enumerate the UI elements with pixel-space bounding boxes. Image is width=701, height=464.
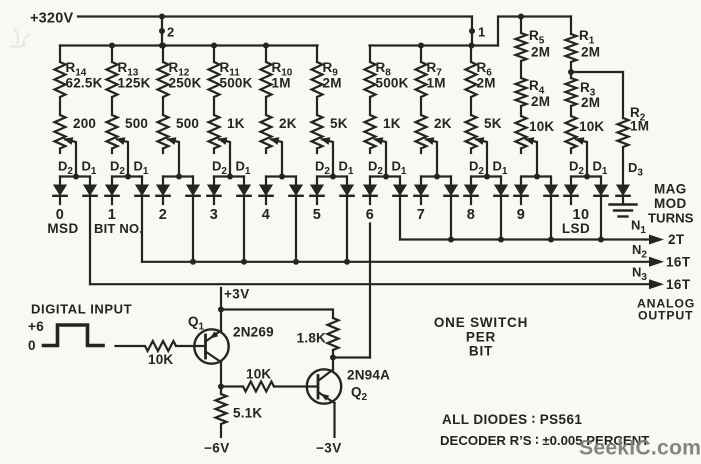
svg-text:N2: N2	[632, 242, 647, 261]
wire Q2 collector node to bit 6 line	[333, 356, 370, 358]
svg-text:125K: 125K	[118, 76, 151, 91]
digital input pulse waveform	[44, 325, 104, 346]
bus N1 to 2T arrow	[400, 238, 656, 240]
wire +320V rail	[78, 15, 472, 17]
potentiometer bit 1 wiper arrow	[117, 139, 128, 176]
junction bus N1 x=601	[598, 237, 604, 243]
junction diode pair bit 7	[434, 174, 440, 180]
diode D1 bit 4	[295, 177, 297, 186]
svg-text:2K: 2K	[279, 116, 297, 131]
wire +3V node to 1.8K	[221, 310, 333, 319]
wire 10K to Q1 base	[176, 345, 206, 347]
svg-text:0: 0	[28, 338, 36, 353]
junction diode pair bit 0	[73, 174, 79, 180]
wire Q2 collector	[332, 358, 334, 370]
transistor Q2 2N94A	[307, 369, 341, 403]
svg-text:N1: N1	[631, 218, 646, 237]
bus A top of bits 0-5	[60, 44, 318, 46]
svg-text:2M: 2M	[477, 76, 496, 91]
wire Q1 bottom to emitter node	[220, 362, 222, 387]
junction +3V node	[218, 307, 224, 313]
svg-text:500: 500	[176, 116, 199, 131]
svg-text:8: 8	[467, 207, 475, 223]
wire D1 drop to bus N1 x=601	[600, 196, 602, 240]
svg-text:1M: 1M	[427, 76, 446, 91]
potentiometer bit 4 wiper arrow	[271, 139, 282, 176]
resistor R7 1M bit 7	[420, 46, 422, 63]
svg-text:1M: 1M	[272, 76, 291, 91]
svg-text:OUTPUT: OUTPUT	[638, 309, 693, 323]
junction rail bit 9 drop	[518, 14, 524, 20]
svg-text:−3V: −3V	[316, 441, 342, 456]
resistor 1.8K	[328, 318, 339, 350]
resistor R3 2M bit 10	[566, 78, 577, 106]
svg-text:2T: 2T	[668, 232, 685, 247]
junction bus N1 x=501	[498, 237, 504, 243]
diode D2 bit 4	[265, 177, 267, 186]
svg-text:PER: PER	[466, 330, 496, 345]
resistor R6 2M bit 8	[470, 46, 472, 63]
node 2	[159, 28, 165, 34]
svg-text:D1: D1	[392, 159, 407, 178]
svg-text:10K: 10K	[246, 367, 271, 382]
junction diode pair bit 5	[330, 174, 336, 180]
wire D1 drop to bus N1 x=501	[500, 196, 502, 240]
diode D2 bit 3	[213, 177, 215, 186]
svg-text:1M: 1M	[630, 119, 649, 134]
wire Q1 base input	[116, 345, 146, 347]
svg-text:D2: D2	[469, 159, 484, 178]
wire D1 drop to bus N2 x=347	[346, 196, 348, 262]
svg-text:D2: D2	[368, 159, 383, 178]
svg-text:2M: 2M	[531, 45, 550, 60]
wire bit 0 D1 to bus N3	[89, 196, 91, 284]
svg-text:10K: 10K	[579, 119, 604, 134]
svg-text:2: 2	[167, 25, 175, 40]
node 2 feed wire	[161, 17, 163, 46]
svg-text:2M: 2M	[323, 76, 342, 91]
svg-text:1K: 1K	[227, 116, 245, 131]
svg-text:MAG: MAG	[654, 182, 687, 197]
svg-text:BIT: BIT	[469, 344, 493, 359]
wire D1 drop to bus N2 x=244	[243, 196, 245, 262]
diode D2 bit 8	[470, 177, 472, 186]
svg-text:2M: 2M	[531, 94, 550, 109]
diode D2 bit 0	[59, 177, 61, 186]
wire +320V rail right segment	[498, 17, 571, 46]
junction diode pair bit 1	[125, 174, 131, 180]
junction bus A x=112	[109, 43, 115, 49]
junction diode pair bit 4	[279, 174, 285, 180]
potentiometer bit 7 wiper arrow	[426, 139, 437, 176]
junction Q1 emitter node	[218, 384, 224, 390]
junction diode pair bit 8	[484, 174, 490, 180]
wire node to 10K coupling	[221, 385, 243, 387]
svg-text:N3: N3	[632, 265, 647, 284]
resistor R11 500K bit 3	[213, 46, 215, 63]
junction bus A x=266	[263, 43, 269, 49]
svg-text:DIGITAL INPUT: DIGITAL INPUT	[31, 302, 132, 317]
svg-text:62.5K: 62.5K	[66, 76, 103, 91]
potentiometer bit 2 wiper arrow	[168, 139, 179, 176]
svg-text:−6V: −6V	[204, 441, 230, 456]
resistor R12 250K bit 2	[162, 46, 164, 63]
svg-text:D2: D2	[110, 159, 125, 178]
bus N3 to 16T arrow	[90, 283, 656, 285]
wire rail corner into node 1	[471, 17, 473, 46]
svg-text:3: 3	[210, 207, 218, 223]
resistor R9 2M bit 5	[316, 46, 318, 63]
svg-text:2N269: 2N269	[233, 325, 274, 340]
svg-text:ONE SWITCH: ONE SWITCH	[434, 315, 528, 330]
potentiometer bit 6 body	[369, 97, 371, 115]
svg-text:2: 2	[159, 207, 167, 223]
svg-text:200: 200	[73, 116, 96, 131]
svg-text:D1: D1	[82, 159, 97, 178]
wire D1 drop to bus N2 x=193	[192, 196, 194, 262]
junction +320V rail / node 2	[159, 14, 165, 20]
svg-text:250K: 250K	[169, 76, 202, 91]
resistor R5 2M bit 9	[520, 17, 522, 34]
junction bus B bit 7	[418, 43, 424, 49]
svg-text:D2: D2	[569, 159, 584, 178]
junction diode pair bit 10	[584, 174, 590, 180]
svg-text:TURNS: TURNS	[648, 211, 694, 226]
svg-text:MSD: MSD	[47, 221, 78, 236]
junction Q2 collector node	[330, 355, 336, 361]
diode D1 bit 9	[550, 177, 552, 186]
svg-text:D1: D1	[593, 159, 608, 178]
svg-text:+320V: +320V	[30, 11, 73, 27]
junction R1/R3/R2	[568, 69, 574, 75]
svg-text:10K: 10K	[148, 352, 173, 367]
watermark smudge top left	[10, 28, 30, 47]
svg-text:9: 9	[517, 207, 525, 223]
wire R1-R3 junction to R2	[570, 62, 572, 78]
svg-text:5K: 5K	[484, 116, 502, 131]
svg-text:D2: D2	[58, 159, 73, 178]
potentiometer bit 0 body	[59, 97, 61, 115]
svg-text:5K: 5K	[330, 116, 348, 131]
junction diode pair bit 6	[383, 174, 389, 180]
potentiometer bit 2 body	[162, 97, 164, 115]
diode D1 bit 1	[141, 177, 143, 186]
junction diode pair bit 9	[534, 174, 540, 180]
diode D1 bit 0	[89, 177, 91, 186]
svg-text:4: 4	[262, 207, 270, 223]
svg-text:D1: D1	[339, 159, 354, 178]
wire D1 drop to bus N1 x=451	[450, 196, 452, 240]
svg-text:500K: 500K	[220, 76, 253, 91]
bus B top of bits 6-8	[370, 44, 499, 46]
svg-text:5.1K: 5.1K	[233, 406, 262, 421]
potentiometer bit 8 wiper arrow	[476, 139, 487, 176]
svg-text:1K: 1K	[383, 116, 401, 131]
diode D2 bit 9	[520, 177, 522, 186]
wire bit 6 D1 to bus N1	[399, 196, 401, 240]
svg-text:16T: 16T	[666, 255, 691, 270]
svg-text:ALL DIODES ∶ PS561: ALL DIODES ∶ PS561	[442, 412, 582, 427]
svg-text:2N94A: 2N94A	[347, 368, 390, 383]
resistor R13 125K bit 1	[111, 46, 113, 63]
resistor R14 62.5K bit 0	[59, 46, 61, 63]
wire bit 1 D1 to bus N2	[141, 196, 143, 262]
svg-text:+3V: +3V	[224, 287, 250, 302]
potentiometer bit 9 wiper arrow	[526, 139, 537, 176]
diode D1 bit 5	[346, 177, 348, 186]
potentiometer bit 6 wiper arrow	[375, 139, 386, 176]
diode D1 bit 2	[192, 177, 194, 186]
svg-text:1: 1	[478, 25, 486, 40]
diode D1 bit 6	[399, 177, 401, 186]
resistor 10K coupling	[243, 382, 274, 392]
junction bus A node 2 drop	[159, 43, 165, 49]
svg-text:D3: D3	[628, 160, 643, 179]
svg-text:D1: D1	[236, 159, 251, 178]
potentiometer bit 10 wiper arrow	[576, 139, 587, 176]
diode D2 bit 7	[420, 177, 422, 186]
svg-text:Q2: Q2	[351, 385, 368, 404]
svg-text:5: 5	[313, 207, 321, 223]
junction bus N2 x=193	[190, 259, 196, 265]
wire +3V supply	[220, 288, 222, 310]
diode D2 bit 1	[111, 177, 113, 186]
junction bus N2 x=296	[293, 259, 299, 265]
diode D3	[622, 147, 624, 185]
junction bus B node 1 drop	[469, 43, 475, 49]
resistor R2 1M	[622, 72, 624, 118]
diode D1 bit 8	[500, 177, 502, 186]
resistor R4 2M bit 9	[520, 61, 522, 78]
svg-text:7: 7	[417, 207, 425, 223]
potentiometer 10K bit 10	[570, 106, 572, 116]
diode D2 bit 6	[369, 177, 371, 186]
transistor Q1 2N269	[194, 329, 228, 363]
potentiometer bit 8 body	[470, 97, 472, 115]
svg-text:2K: 2K	[434, 116, 452, 131]
svg-text:MOD: MOD	[654, 196, 687, 211]
potentiometer bit 5 wiper arrow	[322, 139, 333, 176]
junction bus N2 x=244	[241, 259, 247, 265]
junction bus A x=214	[211, 43, 217, 49]
potentiometer bit 4 body	[265, 97, 267, 115]
junction bus N1 x=451	[448, 237, 454, 243]
potentiometer bit 3 wiper arrow	[219, 139, 230, 176]
svg-text:Q1: Q1	[188, 314, 205, 333]
potentiometer 10K bit 9	[520, 106, 522, 116]
potentiometer bit 3 body	[213, 97, 215, 115]
svg-text:D1: D1	[134, 159, 149, 178]
node 1	[469, 28, 475, 34]
potentiometer bit 0 wiper arrow	[65, 139, 76, 176]
svg-text:1.8K: 1.8K	[297, 331, 326, 346]
resistor R8 500K bit 6	[369, 46, 371, 63]
diode D2 bit 5	[316, 177, 318, 186]
potentiometer bit 5 body	[316, 97, 318, 115]
svg-text:16T: 16T	[666, 277, 691, 292]
junction bus A x=163	[160, 43, 166, 49]
resistor R1 2M bit 10	[570, 17, 572, 35]
wire Q2 emitter to -3V	[333, 403, 335, 437]
resistor 10K base	[145, 341, 176, 351]
svg-text:10K: 10K	[529, 119, 554, 134]
svg-text:SeekIC.com: SeekIC.com	[579, 437, 701, 460]
bus N2 to 16T arrow	[142, 261, 656, 263]
svg-text:6: 6	[366, 207, 374, 223]
svg-text:D1: D1	[493, 159, 508, 178]
resistor R10 1M bit 4	[265, 46, 267, 63]
svg-text:BIT NO.: BIT NO.	[94, 221, 143, 236]
diode D1 bit 3	[243, 177, 245, 186]
wire D1 drop to bus N2 x=296	[295, 196, 297, 262]
wire 10K to Q2 base	[274, 385, 318, 387]
junction diode pair bit 2	[176, 174, 182, 180]
ground	[610, 203, 637, 205]
potentiometer bit 7 body	[420, 97, 422, 115]
wire D1 drop to bus N1 x=551	[550, 196, 552, 240]
wire bit 6 switch line	[369, 224, 371, 358]
svg-text:500: 500	[125, 116, 148, 131]
diode D1 bit 10	[600, 177, 602, 186]
diode D1 bit 7	[450, 177, 452, 186]
junction diode pair bit 3	[227, 174, 233, 180]
junction bus N2 x=347	[344, 259, 350, 265]
potentiometer bit 1 body	[111, 97, 113, 115]
svg-text:500K: 500K	[376, 76, 409, 91]
diode D2 bit 2	[162, 177, 164, 186]
svg-text:2M: 2M	[581, 95, 600, 110]
wire Q1 top to +3V node	[220, 310, 222, 331]
svg-text:2M: 2M	[581, 45, 600, 60]
junction bus N1 x=551	[548, 237, 554, 243]
resistor 5.1K	[220, 387, 222, 395]
svg-text:D2: D2	[315, 159, 330, 178]
diode D2 bit 10	[570, 177, 572, 186]
svg-text:LSD: LSD	[562, 221, 590, 236]
svg-text:+6: +6	[28, 319, 44, 334]
svg-text:D2: D2	[212, 159, 227, 178]
